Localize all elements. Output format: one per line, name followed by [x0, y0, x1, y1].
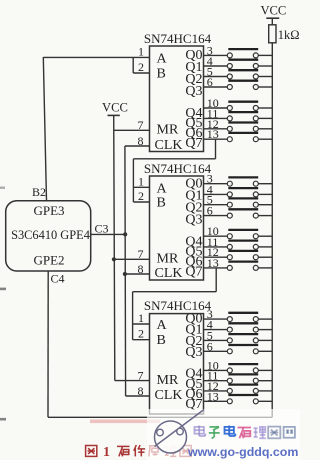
svg-text:Q7: Q7	[185, 265, 202, 280]
switch key U3 Q1	[204, 323, 273, 332]
svg-text:1: 1	[138, 174, 144, 188]
switch key U2 Q1	[204, 188, 273, 197]
junction U2 MR	[112, 257, 116, 261]
switch key U3 Q5	[204, 374, 273, 383]
switch key U1 Q5	[204, 112, 273, 121]
wire GPE4(C3) to CLK rail	[91, 233, 126, 235]
wire U2 CLK stub	[125, 273, 150, 275]
svg-text:B2: B2	[32, 185, 46, 199]
pin label C3	[95, 222, 109, 236]
svg-text:CLK: CLK	[155, 266, 183, 281]
wire U3 MR stub	[115, 380, 150, 382]
svg-text:www.go-gddq.com: www.go-gddq.com	[187, 445, 298, 459]
wire U2 Q7 to U3 A/B (cascade)	[133, 268, 217, 340]
svg-text:A: A	[157, 318, 168, 333]
switch key U2 Q4	[204, 230, 273, 239]
svg-text:B: B	[157, 333, 166, 348]
svg-text:B: B	[157, 66, 166, 81]
pin label C4	[51, 271, 65, 285]
switch key U3 Q4	[204, 364, 273, 373]
resistor R1	[269, 25, 276, 43]
switch key U1 Q7	[204, 133, 273, 142]
pin label B2	[32, 185, 46, 199]
svg-text:7: 7	[138, 118, 144, 132]
svg-text:Q3: Q3	[185, 213, 202, 228]
svg-text:8: 8	[138, 262, 144, 276]
watermark url	[187, 445, 298, 459]
svg-text:A: A	[157, 181, 168, 196]
switch key U3 Q6	[204, 385, 273, 394]
switch key U1 Q4	[204, 102, 273, 111]
svg-text:A: A	[157, 51, 168, 66]
svg-text:2: 2	[138, 189, 144, 203]
switch key U1 Q6	[204, 123, 273, 132]
junction C3/CLK rail	[123, 232, 127, 236]
svg-text:8: 8	[138, 384, 144, 398]
value label 1k ohm	[278, 28, 300, 42]
svg-text:C4: C4	[51, 271, 65, 285]
svg-text:Q3: Q3	[185, 345, 202, 360]
junction U2 CLK	[123, 272, 127, 276]
switch key U2 Q6	[204, 251, 273, 260]
switch key U2 Q7	[204, 262, 273, 271]
IC U3 SN74HC164	[138, 298, 219, 414]
wire U1 CLK stub	[125, 145, 150, 147]
watermark logo circle	[155, 410, 205, 454]
switch key U1 Q2	[204, 70, 273, 79]
switch key U2 Q3	[204, 209, 273, 218]
svg-text:C3: C3	[95, 222, 109, 236]
svg-text:S3C6410 GPE4: S3C6410 GPE4	[11, 228, 90, 242]
svg-text:1: 1	[103, 445, 110, 460]
svg-text:1: 1	[138, 44, 144, 58]
svg-text:MR: MR	[157, 373, 179, 388]
switch key U2 Q0	[204, 177, 273, 186]
svg-text:MR: MR	[157, 252, 179, 267]
svg-text:CLK: CLK	[155, 388, 183, 403]
watermark wash	[147, 409, 300, 460]
power VCC (MR rail)	[102, 101, 128, 116]
wire U1 A/B tie	[133, 57, 149, 73]
svg-text:VCC: VCC	[102, 101, 128, 115]
wire MR rail (VCC to MR pins)	[114, 115, 115, 380]
switch key U1 Q1	[204, 60, 273, 69]
svg-text:SN74HC164: SN74HC164	[144, 31, 212, 46]
wire GPE3(B2) to U1 A	[43, 57, 149, 201]
switch key U3 Q2	[204, 334, 273, 343]
watermark site name (colored glyphs)	[195, 426, 295, 439]
wire GPE2(C4) to key return bus	[48, 271, 272, 417]
scan mark left edge 1	[0, 187, 5, 189]
wire CLK rail	[124, 146, 127, 396]
switch key U2 Q2	[204, 198, 273, 207]
svg-text:8: 8	[138, 134, 144, 148]
switch key U1 Q3	[204, 81, 273, 90]
wire U1 Q7 to U2 A/B (cascade)	[133, 139, 215, 202]
svg-text:7: 7	[138, 247, 144, 261]
power VCC (top right)	[260, 3, 286, 25]
svg-text:VCC: VCC	[260, 3, 286, 17]
switch key U3 Q3	[204, 345, 273, 354]
svg-text:MR: MR	[157, 123, 179, 138]
wire U3 CLK stub	[126, 395, 150, 397]
IC U1 SN74HC164	[138, 31, 219, 153]
MCU S3C6410	[6, 201, 91, 271]
scan mark left edge 3	[0, 418, 6, 421]
caption: figure 1 hardware schematic (red)	[86, 420, 192, 460]
switch key U3 Q7	[204, 395, 273, 404]
switch key U3 Q0	[204, 313, 273, 322]
svg-text:7: 7	[138, 368, 144, 382]
svg-text:B: B	[157, 195, 166, 210]
svg-text:1: 1	[138, 311, 144, 325]
svg-text:2: 2	[138, 327, 144, 341]
wire pull-up bus (right)	[271, 43, 273, 418]
svg-text:GPE2: GPE2	[33, 252, 64, 267]
svg-text:GPE3: GPE3	[33, 203, 64, 218]
switch key U2 Q5	[204, 241, 273, 250]
svg-text:2: 2	[138, 60, 144, 74]
svg-text:Q3: Q3	[185, 84, 202, 99]
svg-text:CLK: CLK	[155, 138, 183, 153]
wire U1 MR stub	[114, 129, 150, 131]
wire U2 MR stub	[114, 258, 149, 260]
svg-text:Q7: Q7	[185, 136, 202, 151]
IC U2 SN74HC164	[138, 161, 219, 281]
svg-text:SN74HC164: SN74HC164	[144, 161, 212, 176]
svg-text:1kΩ: 1kΩ	[278, 28, 300, 42]
switch key U1 Q0	[204, 49, 273, 58]
scan mark left edge 2	[0, 288, 6, 291]
